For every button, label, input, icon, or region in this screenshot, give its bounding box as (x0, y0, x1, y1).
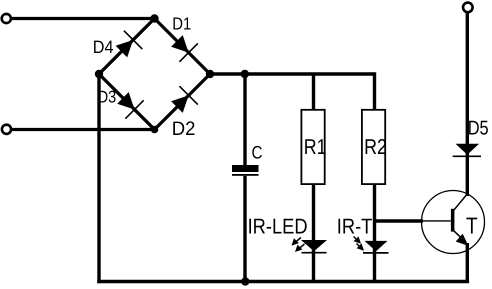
junction node right (bridge plus) (206, 70, 214, 78)
wire plus rail (right node to R2 branch) (210, 72, 375, 75)
LED IR-LED (emitting diode symbol) (301, 240, 327, 253)
transistor T emitter arrow (456, 234, 469, 246)
wire R2 top lead (rail corner down) (373, 72, 376, 109)
wire bridge side top-left (top node to left node) (99, 19, 155, 75)
diode D5 (453, 144, 481, 157)
resistor R2 (362, 110, 385, 184)
IR-LED emission arrow 2 (295, 244, 305, 252)
wire capacitor C bottom lead (243, 176, 246, 282)
resistor R1 (301, 110, 324, 184)
svg-text:D5: D5 (468, 117, 489, 139)
transistor T base bar (451, 209, 455, 232)
photodiode IR-T symbol (363, 241, 389, 253)
IR-LED emission arrow 1 (292, 238, 302, 246)
wire base (R2/IR-T junction to transistor) (375, 219, 424, 222)
diode D1 (bridge, top-right side) (171, 35, 198, 62)
IR-T received-light arrow 2 (357, 243, 365, 250)
wire bridge side bottom-left (left node to bottom node) (99, 74, 155, 130)
svg-text:D1: D1 (172, 14, 191, 34)
wire OUT down to D5 and collector (466, 13, 469, 196)
wire R1 top lead (312, 74, 315, 109)
svg-text:R1: R1 (304, 135, 327, 159)
transistor T base line (inside) (422, 220, 451, 222)
diode D3 (bridge, bottom-left side) (117, 92, 144, 119)
capacitor C (plates) (232, 165, 259, 176)
wire emitter to ground rail (466, 243, 469, 282)
wire R2 bottom lead to ground rail (373, 184, 376, 282)
junction C top (241, 70, 249, 78)
terminal AC1 (top-left input) (2, 14, 11, 23)
wire bridge side bottom-right (bottom node to right node) (155, 74, 211, 130)
wire bridge side top-right (top node to right node) (155, 19, 211, 75)
svg-text:IR-T: IR-T (337, 215, 373, 239)
svg-text:R2: R2 (364, 135, 387, 159)
wire ground rail (bottom) (97, 280, 469, 284)
terminal OUT (top-right) (463, 3, 473, 13)
wire AC2 to bridge bottom node (12, 128, 155, 131)
junction node left (bridge minus) (95, 70, 103, 78)
diode D2 (bridge, bottom-right side) (171, 86, 198, 113)
svg-text:IR-LED: IR-LED (248, 215, 308, 239)
junction node bottom (bridge AC bottom) (151, 126, 159, 134)
wire minus vertical (left node down to ground rail) (97, 74, 100, 283)
svg-text:D4: D4 (93, 37, 114, 57)
junction node top (bridge AC top) (150, 14, 158, 22)
terminal AC2 (bottom-left input) (2, 125, 11, 134)
wire R1 bottom lead to ground rail (312, 184, 315, 282)
IR-T received-light arrow 1 (354, 236, 362, 243)
svg-text:T: T (466, 213, 478, 239)
wire AC1 to bridge top node (12, 17, 155, 20)
svg-text:C: C (252, 143, 263, 163)
junction C bottom on ground rail (241, 277, 249, 285)
wire capacitor C top lead (243, 74, 246, 166)
diode D4 (bridge, top-left side) (116, 31, 143, 58)
transistor T emitter line (454, 231, 463, 240)
transistor T body circle (422, 191, 485, 254)
svg-text:D2: D2 (172, 118, 196, 140)
transistor T collector line (454, 194, 467, 210)
